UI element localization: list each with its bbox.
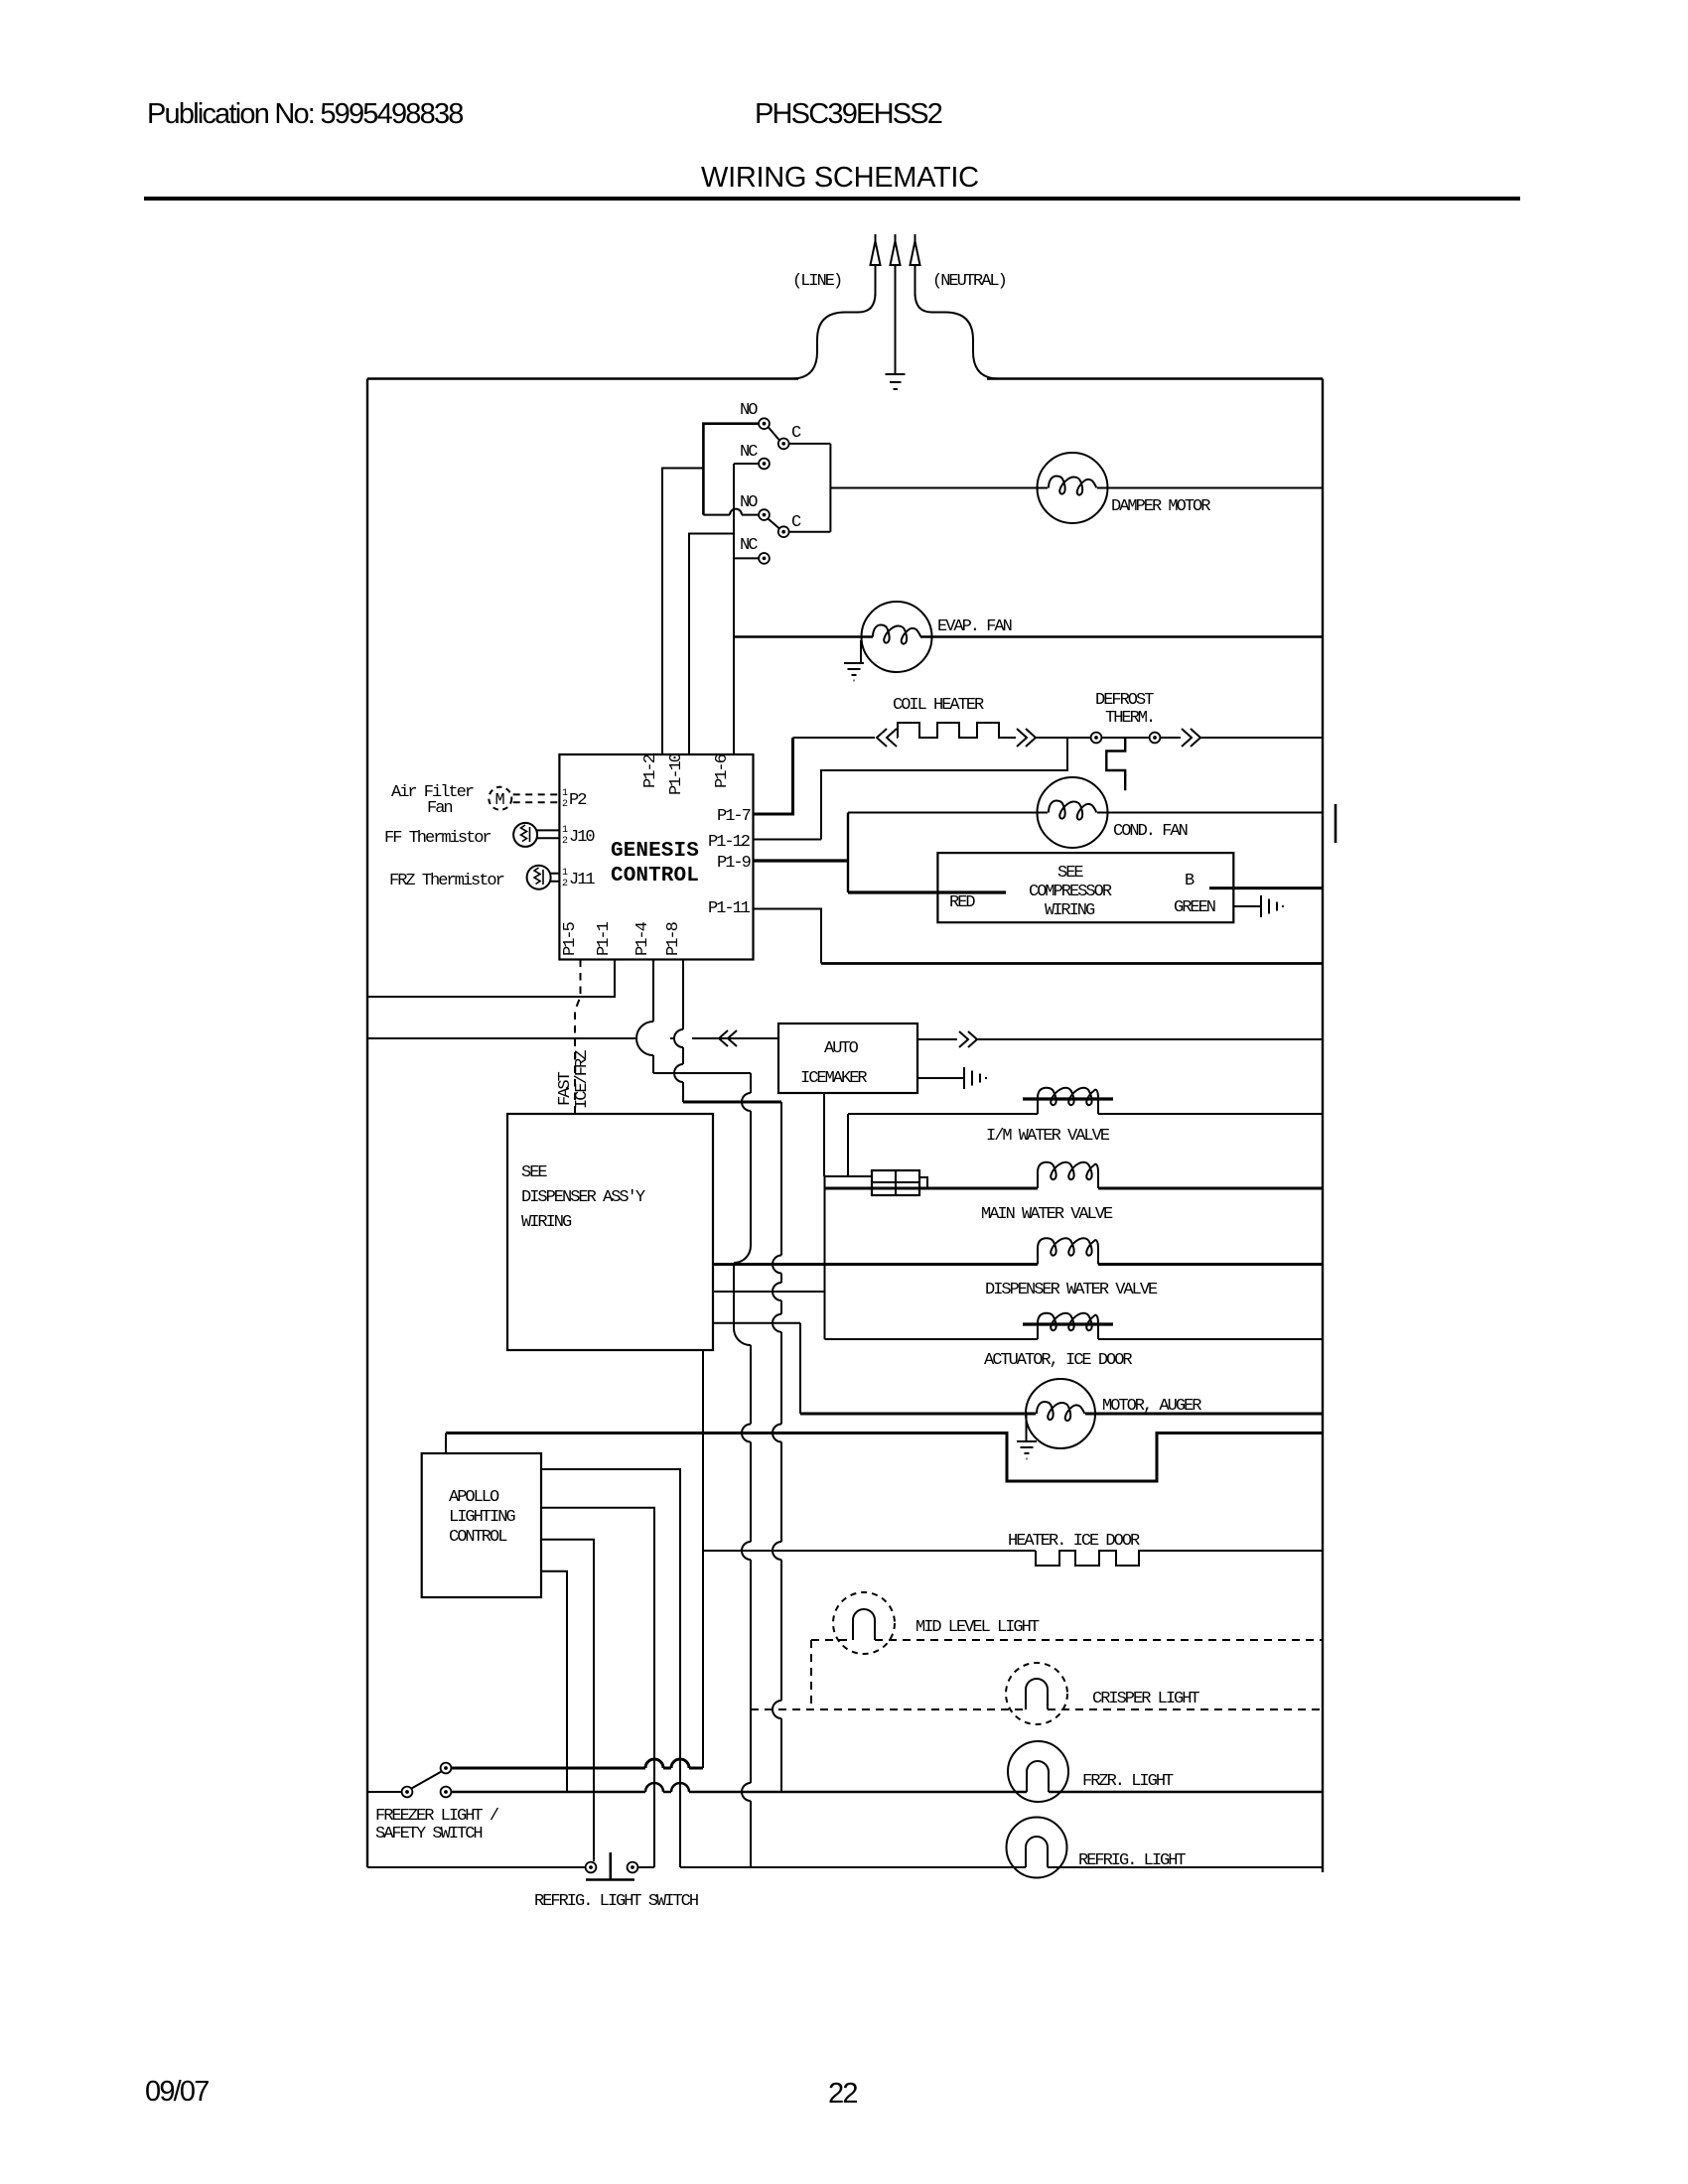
svg-text:GREEN: GREEN [1174,898,1215,917]
OUTERBOX [367,379,1336,1873]
svg-text:PHSC39EHSS2: PHSC39EHSS2 [755,98,942,130]
wire to defrost contacts [1036,737,1181,739]
evap fan ground stub [860,640,862,663]
coil heater element (square bumps) [898,723,1016,738]
safety switch contact left [402,1787,413,1798]
svg-text:REFRIG. LIGHT: REFRIG. LIGHT [1078,1851,1186,1870]
wire C2 to C bus [789,531,831,533]
svg-text:FRZR. LIGHT: FRZR. LIGHT [1082,1772,1174,1791]
coil heater line to element [897,737,898,739]
splitter vertical for cond fan / compressor red [847,813,849,893]
wire heater to right border [1139,1550,1323,1552]
svg-text:NC: NC [740,536,758,555]
I/M water valve wire [848,1113,1323,1115]
svg-text:SAFETY SWITCH: SAFETY SWITCH [375,1825,482,1843]
wire C1 to C bus [789,443,831,445]
coil heater wire left segment [793,737,876,739]
svg-text:CRISPER LIGHT: CRISPER LIGHT [1092,1690,1199,1708]
evap fan motor circle [862,602,932,672]
svg-text:WIRING: WIRING [1045,901,1095,920]
refrig light circle [1007,1818,1067,1878]
plug prong NEUTRAL [911,234,920,296]
compressor box [937,853,1233,922]
svg-text:P1-9: P1-9 [717,854,752,873]
chevron >> right of icemaker [959,1031,977,1047]
svg-text:THERM.: THERM. [1105,709,1154,728]
air filter fan motor (dashed circle) [489,787,511,810]
outer box right edge (neutral line wire) [1322,379,1324,1873]
wire refrig switch to apollo v2 [637,1866,654,1868]
svg-text:1: 1 [562,825,568,836]
svg-text:LIGHTING: LIGHTING [449,1508,515,1527]
P1-4 net lower vertical with hops [750,1345,752,1867]
wire: cond fan row [848,812,1323,814]
RED wire into compressor box [848,890,1006,893]
defrost junction drop to P1-12 return [821,738,1067,840]
auger motor wire [800,1413,1323,1416]
svg-text:Fan: Fan [427,799,452,818]
svg-text:J10: J10 [569,828,595,847]
svg-text:P1-2: P1-2 [641,754,660,788]
safety switch blade [412,1772,442,1789]
wire: neutral prong to top edge [915,293,1000,379]
NC net vertical (to P1-6) [733,464,735,754]
crisper light circle (dashed) [1006,1663,1067,1724]
valve block divider [895,1170,897,1195]
refrig light wire [680,1866,1323,1868]
actuator coil [1038,1313,1098,1339]
contact NC1 [759,459,770,470]
svg-text:FRZ Thermistor: FRZ Thermistor [389,872,504,890]
safety switch contact lower [441,1787,452,1798]
wire icemaker to right border [917,1038,957,1040]
svg-text:DISPENSER WATER VALVE: DISPENSER WATER VALVE [985,1281,1158,1299]
VALVES [507,1114,1323,1768]
chevron << (coil heater left) [877,729,897,747]
GENESIS [384,752,754,959]
main water valve wire [825,1187,1324,1190]
outer box top edge right segment [987,377,1323,379]
heater ice door element (square bumps below) [1036,1551,1142,1566]
svg-text:NO: NO [740,493,758,512]
outer box left edge (common line wire) [366,379,368,1868]
apollo out wire 1 [541,1469,680,1867]
wire P1-11 [754,909,822,964]
FRZ thermistor symbol [527,866,551,889]
damper motor coil [1049,477,1096,495]
svg-text:AUTO: AUTO [824,1039,859,1058]
wire: line prong to top edge [791,293,876,379]
svg-text:1: 1 [562,868,568,879]
dispenser water valve coil [1038,1238,1098,1264]
wire left border to safety switch [367,1791,402,1793]
hop P1-4 net over H7 [742,1425,751,1442]
chevron << on icemaker wire [719,1030,737,1046]
apollo out wire 2 [541,1508,654,1867]
hop P1-8 net over crisper wire [773,1701,781,1718]
hop P1-8 over H1 [674,1029,683,1047]
hop upper wire over apollo v2 [645,1759,663,1768]
svg-text:MOTOR, AUGER: MOTOR, AUGER [1102,1397,1201,1416]
outer box top edge left segment [367,377,798,379]
FF thermistor symbol [513,823,537,847]
svg-text:DAMPER MOTOR: DAMPER MOTOR [1111,497,1210,516]
hop P1-8 net over H5 [773,1283,781,1300]
valve stack vertical (x=830.5) [824,1176,826,1339]
apollo lighting control box [422,1453,541,1597]
auto icemaker box [778,1024,917,1093]
svg-text:CONTROL: CONTROL [449,1528,507,1547]
hop P1-4 net over frzr wire [742,1783,751,1801]
chassis ground (sideways) [1261,895,1283,917]
mid level dashed drop [810,1640,812,1709]
header rule [144,197,1520,201]
wire y1185 to valve housing [825,1175,873,1177]
mid level lamp [853,1609,875,1640]
auger motor circle [1026,1379,1095,1448]
svg-text:WIRING SCHEMATIC: WIRING SCHEMATIC [701,162,979,194]
svg-text:COND. FAN: COND. FAN [1113,822,1188,841]
hop P1-4 net over H3 [742,1093,751,1111]
svg-text:NC: NC [740,443,758,462]
wire NO2 row with hop over NC net [703,514,759,516]
svg-text:COIL HEATER: COIL HEATER [893,696,984,715]
LIGHTS [451,1532,1323,1878]
mid level light dashed wire [811,1639,1323,1641]
valve block housing [872,1170,919,1195]
contact NO1 [759,418,770,429]
main water valve coil [1038,1162,1098,1188]
switch blade 2 [769,519,780,529]
frzr light circle [1008,1741,1068,1802]
wire continues to right border [977,1038,1323,1040]
wire P1-4 jog east [653,1072,751,1074]
valve block mid line [872,1181,919,1183]
svg-text:NO: NO [740,401,758,420]
I/M water valve core bar [1023,1097,1113,1100]
wire P1-12 to riser [754,839,822,841]
icemaker ground stub [917,1077,964,1079]
svg-text:I/M WATER VALVE: I/M WATER VALVE [986,1127,1110,1146]
svg-text:2: 2 [562,836,568,847]
dashed wires P2 [513,794,560,802]
svg-text:Publication No: 5995498838: Publication No: 5995498838 [147,98,463,130]
switch blade 1 [769,427,780,441]
svg-text:P1-7: P1-7 [717,807,751,826]
svg-text:MID LEVEL LIGHT: MID LEVEL LIGHT [915,1618,1040,1637]
svg-text:09/07: 09/07 [145,2076,209,2108]
svg-text:22: 22 [828,2078,857,2110]
svg-text:M: M [495,791,505,810]
svg-text:2: 2 [562,879,568,889]
svg-text:1: 1 [562,788,568,799]
hop upper wire over apollo v1 [671,1759,689,1768]
wire H7 (apollo to right border, dips under auger ground) [446,1433,1323,1482]
svg-text:2: 2 [562,799,568,810]
plug prong ground [891,234,901,374]
hop frzr wire over apollo v1 [671,1783,689,1792]
BOTTOMSW [367,1763,698,1911]
svg-text:ICEMAKER: ICEMAKER [800,1069,867,1088]
auger ground [1017,1441,1037,1459]
dashed wire P1-5 (fast ice/frz) [575,960,581,1115]
plug prong LINE [871,234,881,296]
svg-text:P1-5: P1-5 [561,921,580,956]
defrost therm bimetal step [1106,738,1125,790]
P1-4 net jog left arc [734,1246,751,1263]
svg-text:J11: J11 [569,871,595,889]
hop P1-8 net over dispenser valve wire [773,1256,781,1274]
cond fan coil [1049,801,1096,820]
PLUG [791,234,1006,389]
B wire to right border [1209,887,1323,889]
refrig switch contact left [586,1862,597,1873]
svg-text:P1-10: P1-10 [667,752,686,795]
evap fan coil [873,625,920,644]
svg-text:SEE: SEE [1057,864,1083,883]
chevron >> (coil heater right) [1017,729,1036,747]
svg-text:EVAP. FAN: EVAP. FAN [937,617,1012,636]
contact NO2 [759,509,770,520]
P1-8 net vertical (x=787) with hops [780,1102,782,1792]
chevron >> (defrost right) [1182,729,1200,747]
hop P1-8 over H2 [674,1064,683,1082]
apollo top stub [445,1433,447,1454]
wire P1-1 down and to left border [367,960,615,998]
wire P1-4 vertical upper [652,960,654,1074]
I/M water valve coil [1038,1088,1098,1114]
wire H6 from dispenser box [713,1322,800,1324]
P1-4 net vertical (x=756) upper, hop gap at H3 [750,1073,752,1246]
svg-text:P1-11: P1-11 [708,899,751,918]
hop frzr wire over apollo v2 [645,1783,663,1792]
C bus vertical [829,444,831,532]
svg-text:FF Thermistor: FF Thermistor [384,829,491,848]
svg-text:ICE/FRZ: ICE/FRZ [573,1050,592,1109]
contact C2 [778,526,789,537]
contact C1 [778,439,789,450]
wire NC2 to NC vertical [734,557,759,559]
actuator wire [825,1338,1324,1340]
wire P1-8 vertical upper with hops [682,960,684,1103]
svg-text:P1-12: P1-12 [708,833,750,852]
icemaker chassis ground [964,1067,986,1089]
auger motor coil [1037,1402,1084,1421]
TOPMOTORS [734,453,1323,848]
svg-text:(NEUTRAL): (NEUTRAL) [932,272,1006,291]
svg-text:DISPENSER ASS'Y: DISPENSER ASS'Y [521,1188,645,1207]
hop P1-8 net over H6 [773,1314,781,1332]
actuator core bar [1023,1322,1113,1325]
svg-text:DEFROST: DEFROST [1095,691,1154,710]
hop of NO2 wire over NC vertical [730,509,742,515]
svg-text:P2: P2 [569,791,586,810]
svg-text:WIRING: WIRING [521,1213,572,1232]
svg-text:P1-1: P1-1 [595,921,614,956]
apollo out wire 4 [541,1571,567,1792]
APOLLO [422,1433,1323,1868]
SWITCHES [662,401,830,754]
svg-text:C: C [791,424,801,443]
ground symbol under plug [886,374,906,389]
mid level light circle (dashed) [833,1592,895,1654]
frzr lamp [1027,1761,1049,1792]
P1-4 net jog right arc [734,1328,751,1345]
genesis control box [559,754,753,960]
cond fan motor circle [1038,777,1108,848]
wire: P1-7 to coil heater line [754,738,793,814]
evap fan ground [844,663,864,681]
svg-text:ACTUATOR, ICE DOOR: ACTUATOR, ICE DOOR [984,1351,1132,1370]
bottom wire to right border [821,962,1323,965]
wire: evap fan row (from P1-6 net to right border) [734,635,1323,638]
crisper light dashed wire [751,1708,1323,1710]
auger ground stub [1026,1414,1028,1441]
icemaker bottom drop [823,1093,825,1176]
svg-text:RED: RED [949,893,975,912]
wire NC1 to NC vertical [734,463,759,465]
wire H1: left border to icemaker [367,1037,778,1039]
refrig switch contact right [628,1862,638,1873]
svg-text:COMPRESSOR: COMPRESSOR [1029,883,1112,901]
svg-text:REFRIG. LIGHT SWITCH: REFRIG. LIGHT SWITCH [534,1892,698,1911]
svg-text:APOLLO: APOLLO [449,1488,499,1507]
svg-text:B: B [1185,872,1195,890]
wire H5 from dispenser box [713,1291,825,1293]
see dispenser assy wiring box [507,1114,713,1350]
wire H8 heater ice door row [703,1550,1036,1552]
COMPRESSOR [754,813,1324,964]
I/M valve wire left drop [847,1114,849,1176]
P1-4 net jogged vertical [733,1263,735,1328]
GREEN wire to chassis ground [1233,905,1261,907]
refrig lamp [1026,1837,1048,1867]
contact NC2 [759,553,770,564]
wire left border to refrig switch [367,1866,586,1868]
hop P1-4 net over H8 [742,1542,751,1560]
wires J10 [537,830,559,838]
svg-text:P1-8: P1-8 [664,921,683,956]
H6 drop to auger wire [799,1323,801,1414]
ICEMAKER [778,1024,1323,1176]
damper motor M circle [1038,453,1108,523]
hop P1-8 net over H7 [773,1425,781,1442]
dispenser water valve wire (H4) [713,1263,1323,1266]
svg-text:SEE: SEE [521,1163,547,1182]
hop P1-8 net over H8 [773,1542,781,1560]
wire defrost to right border [1200,737,1323,739]
safety switch contact NO (upper) [441,1763,452,1774]
wire P1-10 riser and jog to NC net [689,534,734,755]
wire H3: P1-8 east (thick) [683,1101,781,1104]
crisper lamp [1026,1679,1048,1709]
hop P1-4 over H1 (large) [636,1022,653,1055]
defrost therm contact right [1150,733,1161,744]
frzr light wire (from safety switch lower contact) [451,1791,1323,1794]
wire P1-9 (thick) to splitter [754,859,849,862]
wire: C bus to damper motor to right border [830,487,1323,489]
svg-text:C: C [791,513,801,532]
apollo out wire 3 [541,1540,594,1861]
defrost therm contact left [1091,733,1102,744]
svg-text:(LINE): (LINE) [792,272,841,291]
svg-text:P1-6: P1-6 [713,753,732,788]
MIDWIRES [367,960,781,1868]
stray vertical mark right of border [1335,804,1337,843]
svg-text:FREEZER LIGHT /: FREEZER LIGHT / [375,1807,499,1826]
dispenser box bottom vertical (x=708) [702,1350,704,1768]
svg-text:HEATER. ICE DOOR: HEATER. ICE DOOR [1008,1532,1140,1551]
svg-text:GENESIS: GENESIS [611,840,699,863]
wire NO1 to common vertical (thick) [703,424,759,515]
svg-text:MAIN WATER VALVE: MAIN WATER VALVE [981,1205,1113,1224]
wires J11 [551,874,560,882]
HEADER [144,98,1520,2110]
safety switch upper wire (thick) [451,1767,703,1770]
valve block tab [919,1177,927,1188]
svg-text:CONTROL: CONTROL [611,865,699,887]
svg-text:P1-4: P1-4 [633,921,652,956]
refrig switch plunger [586,1852,634,1880]
wire P1-2 riser and jog to switch common [662,469,703,755]
